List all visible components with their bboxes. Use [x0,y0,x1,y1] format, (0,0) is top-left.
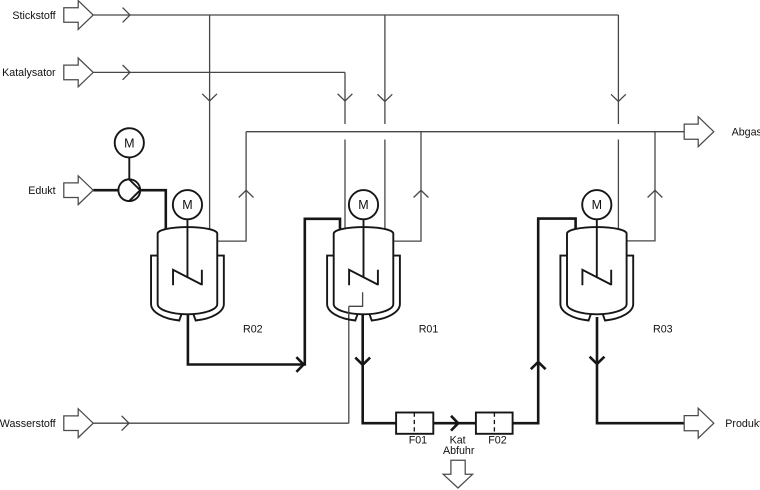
arrowhead N2 drop R01 [378,94,393,101]
motor M of R02 [173,190,202,219]
motor M of R03 [582,190,611,219]
pipe Abgas header [246,131,684,133]
jacket R01 right [370,256,400,321]
motor M of pump [115,128,144,157]
arrowhead R01 offgas riser [414,190,429,197]
jacket R02 right [194,256,224,321]
pipe R03 offgas riser [627,132,655,241]
vessel R03 [567,227,627,314]
input arrow Katalysator [64,58,93,87]
svg-text:Edukt: Edukt [28,185,55,197]
stirrer shaft R01 [363,219,365,277]
arrowhead Katalysator drop [338,94,353,101]
stirrer shaft R03 [596,219,598,277]
output arrow Abgas [684,117,714,147]
svg-text:M: M [182,198,192,212]
jacket R03 left [560,256,590,321]
pipe R01 outlet through filters to R03 [363,219,576,424]
arrowhead riser to R03 [531,362,546,369]
vessel R02 [158,227,218,314]
filter F01 [396,413,433,434]
svg-text:Abfuhr: Abfuhr [443,445,475,457]
svg-text:M: M [592,198,602,212]
arrowhead R02 outlet [296,357,303,372]
arrowhead R03 offgas riser [648,190,663,197]
arrowhead R02 offgas riser [239,190,254,197]
pipe Katalysator drop to R01 (gap at Abgas crossing) [344,72,346,231]
pipe R02 offgas riser [217,132,246,241]
svg-text:M: M [124,137,134,151]
arrowhead on Wasserstoff line [122,416,129,431]
sparger hook inside R01 [349,292,363,320]
svg-text:M: M [358,198,368,212]
svg-text:F01: F01 [409,435,427,447]
vessel R01 [334,227,394,314]
arrowhead between filters [451,416,458,431]
stirrer shaft R02 [186,219,188,277]
output arrow Kat Abfuhr (down) [443,460,472,488]
jacket R03 right [603,256,633,321]
arrowhead N2 drop R02 [202,94,217,101]
svg-text:Katalysator: Katalysator [2,67,56,79]
arrowhead R03 outlet down [590,357,605,364]
pipe Stickstoff header [93,14,618,16]
pipe R02 outlet to R01 [188,219,340,365]
pump impeller wedge [129,180,140,201]
motor M of R01 [349,190,378,219]
pipe Katalysator header [93,71,345,73]
svg-text:Stickstoff: Stickstoff [12,10,55,22]
input arrow Stickstoff [64,1,93,30]
svg-text:R03: R03 [653,323,673,335]
output arrow Produkt [684,408,714,438]
filter F02 [476,413,513,434]
agitator R03 [582,270,611,285]
arrowhead N2 drop R03 [611,94,626,101]
input arrow Edukt [64,176,93,205]
pipe N2 drop to R01 (gap at Abgas crossing) [384,15,386,232]
pipe Wasserstoff riser and sparger into R01 [349,292,363,423]
svg-text:F02: F02 [488,435,506,447]
svg-text:R02: R02 [243,323,263,335]
svg-text:Produkt: Produkt [725,418,760,430]
svg-text:Wasserstoff: Wasserstoff [0,418,56,430]
pipe N2 drop to R03 (gap at Abgas crossing) [617,15,619,231]
pump motor shaft [128,157,130,179]
arrowhead on Katalysator header [123,65,130,80]
agitator R01 [349,270,378,285]
pipe Edukt feed to pump and R02 [93,190,166,231]
pipe R03 outlet to Produkt [597,317,684,423]
input arrow Wasserstoff [64,409,93,438]
jacket R02 left [151,256,181,321]
pump P1 [118,179,140,201]
svg-text:Abgas: Abgas [732,127,760,139]
agitator R02 [173,270,202,285]
pipe N2 drop to R02 [209,15,211,231]
pipe Wasserstoff line [93,422,349,424]
arrowhead R01 outlet down [355,358,370,365]
jacket R01 left [327,256,357,321]
arrowhead on Stickstoff header [123,8,130,23]
svg-text:R01: R01 [419,323,439,335]
pipe R01 offgas riser [393,132,421,241]
